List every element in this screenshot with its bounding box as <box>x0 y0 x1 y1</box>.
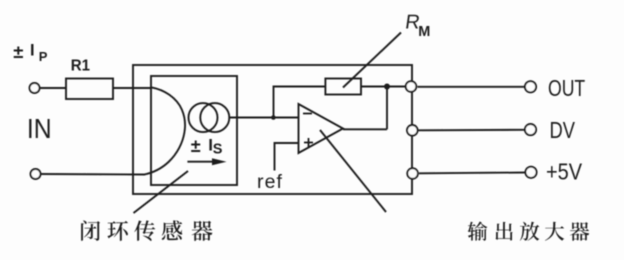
svg-text:I: I <box>30 42 35 60</box>
svg-text:DV: DV <box>549 118 574 144</box>
svg-text:+5V: +5V <box>546 158 583 185</box>
svg-text:ref: ref <box>257 171 283 193</box>
svg-text:IN: IN <box>27 113 52 145</box>
svg-text:±: ± <box>13 41 23 62</box>
svg-text:P: P <box>39 49 48 64</box>
svg-text:±: ± <box>191 136 201 156</box>
svg-text:M: M <box>418 24 430 40</box>
svg-text:S: S <box>213 142 223 158</box>
svg-text:OUT: OUT <box>548 76 585 102</box>
svg-text:R1: R1 <box>71 57 91 74</box>
